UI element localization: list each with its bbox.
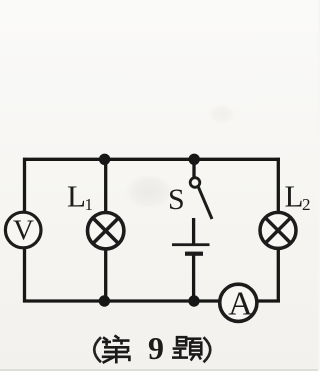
caption char DI (第) hand-drawn xyxy=(102,335,130,363)
wire left vertical (lower) xyxy=(23,248,26,303)
wire right vertical (lower) xyxy=(277,248,280,302)
battery cell xyxy=(172,243,210,256)
svg-text:A: A xyxy=(228,286,253,323)
caption (第9题) xyxy=(94,337,210,362)
node junction bottom-left xyxy=(99,295,110,306)
svg-text:S: S xyxy=(168,183,185,216)
node junction top-left xyxy=(99,154,110,165)
wire L1 branch upper xyxy=(104,159,107,212)
svg-text:L: L xyxy=(67,179,86,214)
label L1 xyxy=(67,179,93,215)
svg-text:1: 1 xyxy=(85,195,94,214)
wire right vertical (upper) xyxy=(277,158,280,213)
lamp L1 xyxy=(88,213,124,249)
wire switch branch (dot to switch pivot) xyxy=(192,159,195,177)
wire bottom horizontal (left of ammeter) xyxy=(23,299,221,302)
left paren xyxy=(94,337,101,362)
voltmeter V xyxy=(5,212,41,248)
label L2 xyxy=(285,179,311,215)
svg-text:9: 9 xyxy=(148,330,164,366)
wire L1 branch lower xyxy=(104,249,107,301)
wire battery branch (battery to bottom) xyxy=(192,255,195,301)
wire left vertical (upper) xyxy=(23,158,26,213)
caption char TI (题) hand-drawn xyxy=(172,337,201,360)
lamp L2 xyxy=(260,212,296,248)
node junction top-right xyxy=(189,154,200,165)
wire battery branch (switch to battery) xyxy=(192,218,195,244)
right paren xyxy=(204,337,211,362)
svg-text:L: L xyxy=(285,179,304,214)
wire bottom horizontal (ammeter to corner) xyxy=(257,299,281,302)
node junction bottom-right xyxy=(188,295,199,306)
ammeter A xyxy=(220,284,257,322)
svg-text:V: V xyxy=(13,215,34,247)
switch S xyxy=(190,178,212,219)
svg-text:2: 2 xyxy=(302,195,311,214)
wire top horizontal xyxy=(23,158,280,161)
